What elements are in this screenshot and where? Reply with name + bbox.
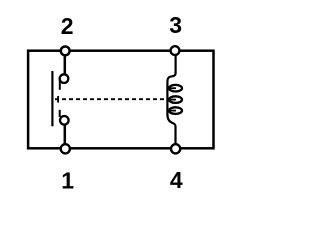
coil winding	[167, 54, 182, 146]
svg-text:3: 3	[169, 12, 182, 38]
svg-text:2: 2	[61, 13, 74, 39]
terminal 1 (bottom-left pin)	[61, 144, 70, 153]
svg-text:1: 1	[61, 168, 74, 194]
terminal 4 (bottom-right pin)	[171, 144, 180, 153]
terminal 2 (top-left pin)	[61, 47, 70, 56]
enclosure box (relay outline / wires)	[28, 51, 213, 149]
terminal 3 (top-right pin)	[171, 46, 180, 55]
svg-text:4: 4	[170, 167, 183, 193]
mechanical link (dashed)	[55, 96, 167, 103]
wire from lower contact to terminal 1	[64, 125, 67, 146]
switch lower fixed contact	[60, 110, 69, 125]
switch armature (movable contact lever)	[51, 71, 53, 126]
switch upper fixed contact	[60, 74, 69, 90]
wire from terminal 2 to upper contact	[64, 53, 67, 74]
